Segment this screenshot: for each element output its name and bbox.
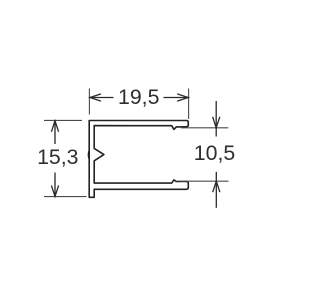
arrow up (10,5 bottom)	[213, 181, 220, 192]
profile outline (C-channel cross-section)	[89, 121, 188, 198]
arrow left (19,5)	[90, 94, 101, 101]
dimension 15,3 line bottom segment	[54, 173, 56, 197]
dimension 15,3 extension line top	[44, 119, 82, 121]
dimension 10,5 extension line bottom	[180, 180, 229, 182]
dimension 15,3 line top segment	[54, 121, 56, 144]
dimension 19,5 extension line right	[188, 89, 190, 120]
outer-wall bump	[87, 150, 90, 159]
dimension 10,5 extension line top	[181, 127, 228, 129]
arrow down (10,5 top)	[213, 117, 220, 128]
dimension 19,5 line left segment	[90, 97, 114, 99]
svg-text:15,3: 15,3	[37, 145, 78, 169]
svg-text:19,5: 19,5	[118, 85, 159, 109]
dimension 10,5 bottom arrow line	[215, 172, 217, 208]
dimension 10,5 top arrow line	[215, 101, 217, 137]
dimension 15,3 extension line bottom	[44, 196, 87, 198]
dimension 19,5 extension line left	[88, 89, 90, 115]
arrow up (15,3)	[51, 121, 58, 132]
dimension 19,5 line right segment	[164, 97, 189, 99]
arrow down (15,3)	[51, 185, 58, 196]
arrow right (19,5)	[177, 94, 188, 101]
svg-text:10,5: 10,5	[194, 141, 235, 165]
